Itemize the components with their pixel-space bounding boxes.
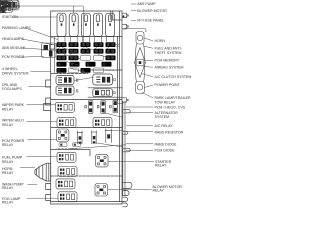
svg-text:RABS RESISTOR: RABS RESISTOR [155,130,184,134]
svg-text:RELAY: RELAY [2,107,14,111]
svg-text:RELAY: RELAY [2,160,14,164]
svg-text:ABS PUMP: ABS PUMP [137,2,156,6]
svg-text:POWER POINT: POWER POINT [155,83,181,87]
svg-text:RELAY: RELAY [2,171,14,175]
svg-text:RELAY: RELAY [2,200,14,204]
svg-text:RABS DIODE: RABS DIODE [155,143,178,147]
svg-text:TOW RELAY: TOW RELAY [155,100,176,104]
svg-text:RELAY: RELAY [155,164,167,168]
svg-text:RELAY: RELAY [2,186,14,190]
svg-text:HEADLAMPS: HEADLAMPS [2,37,25,41]
svg-text:FOGLAMPS: FOGLAMPS [2,87,22,91]
svg-text:RELAY: RELAY [2,143,14,147]
svg-text:THEFT SYSTEM: THEFT SYSTEM [155,51,182,55]
svg-text:A/C CLUTCH SYSTEM: A/C CLUTCH SYSTEM [155,75,192,79]
svg-text:A/C RELAY: A/C RELAY [155,124,174,128]
svg-text:ABS MODULE: ABS MODULE [2,46,26,50]
svg-text:PARKING LAMPS: PARKING LAMPS [2,26,31,30]
svg-text:HORN: HORN [155,39,166,43]
svg-text:PCM DIODE: PCM DIODE [155,149,176,153]
svg-text:I/P FUSE PANEL: I/P FUSE PANEL [137,18,164,22]
svg-text:PCM POWER: PCM POWER [2,55,25,59]
svg-text:PCM / HEGO, CVS: PCM / HEGO, CVS [155,105,186,109]
svg-text:RELAY: RELAY [2,123,14,127]
svg-text:BLOWER MOTOR: BLOWER MOTOR [137,9,167,13]
svg-text:SYSTEM: SYSTEM [155,115,170,119]
svg-text:RELAY: RELAY [153,189,165,193]
svg-text:PCM MEMORY: PCM MEMORY [155,59,180,63]
svg-text:IGNITION: IGNITION [2,15,18,19]
svg-text:WINDOWS: WINDOWS [2,5,21,9]
svg-text:DRIVE SYSTEM: DRIVE SYSTEM [2,71,28,75]
svg-text:AIRBAG SYSTEM: AIRBAG SYSTEM [155,65,184,69]
